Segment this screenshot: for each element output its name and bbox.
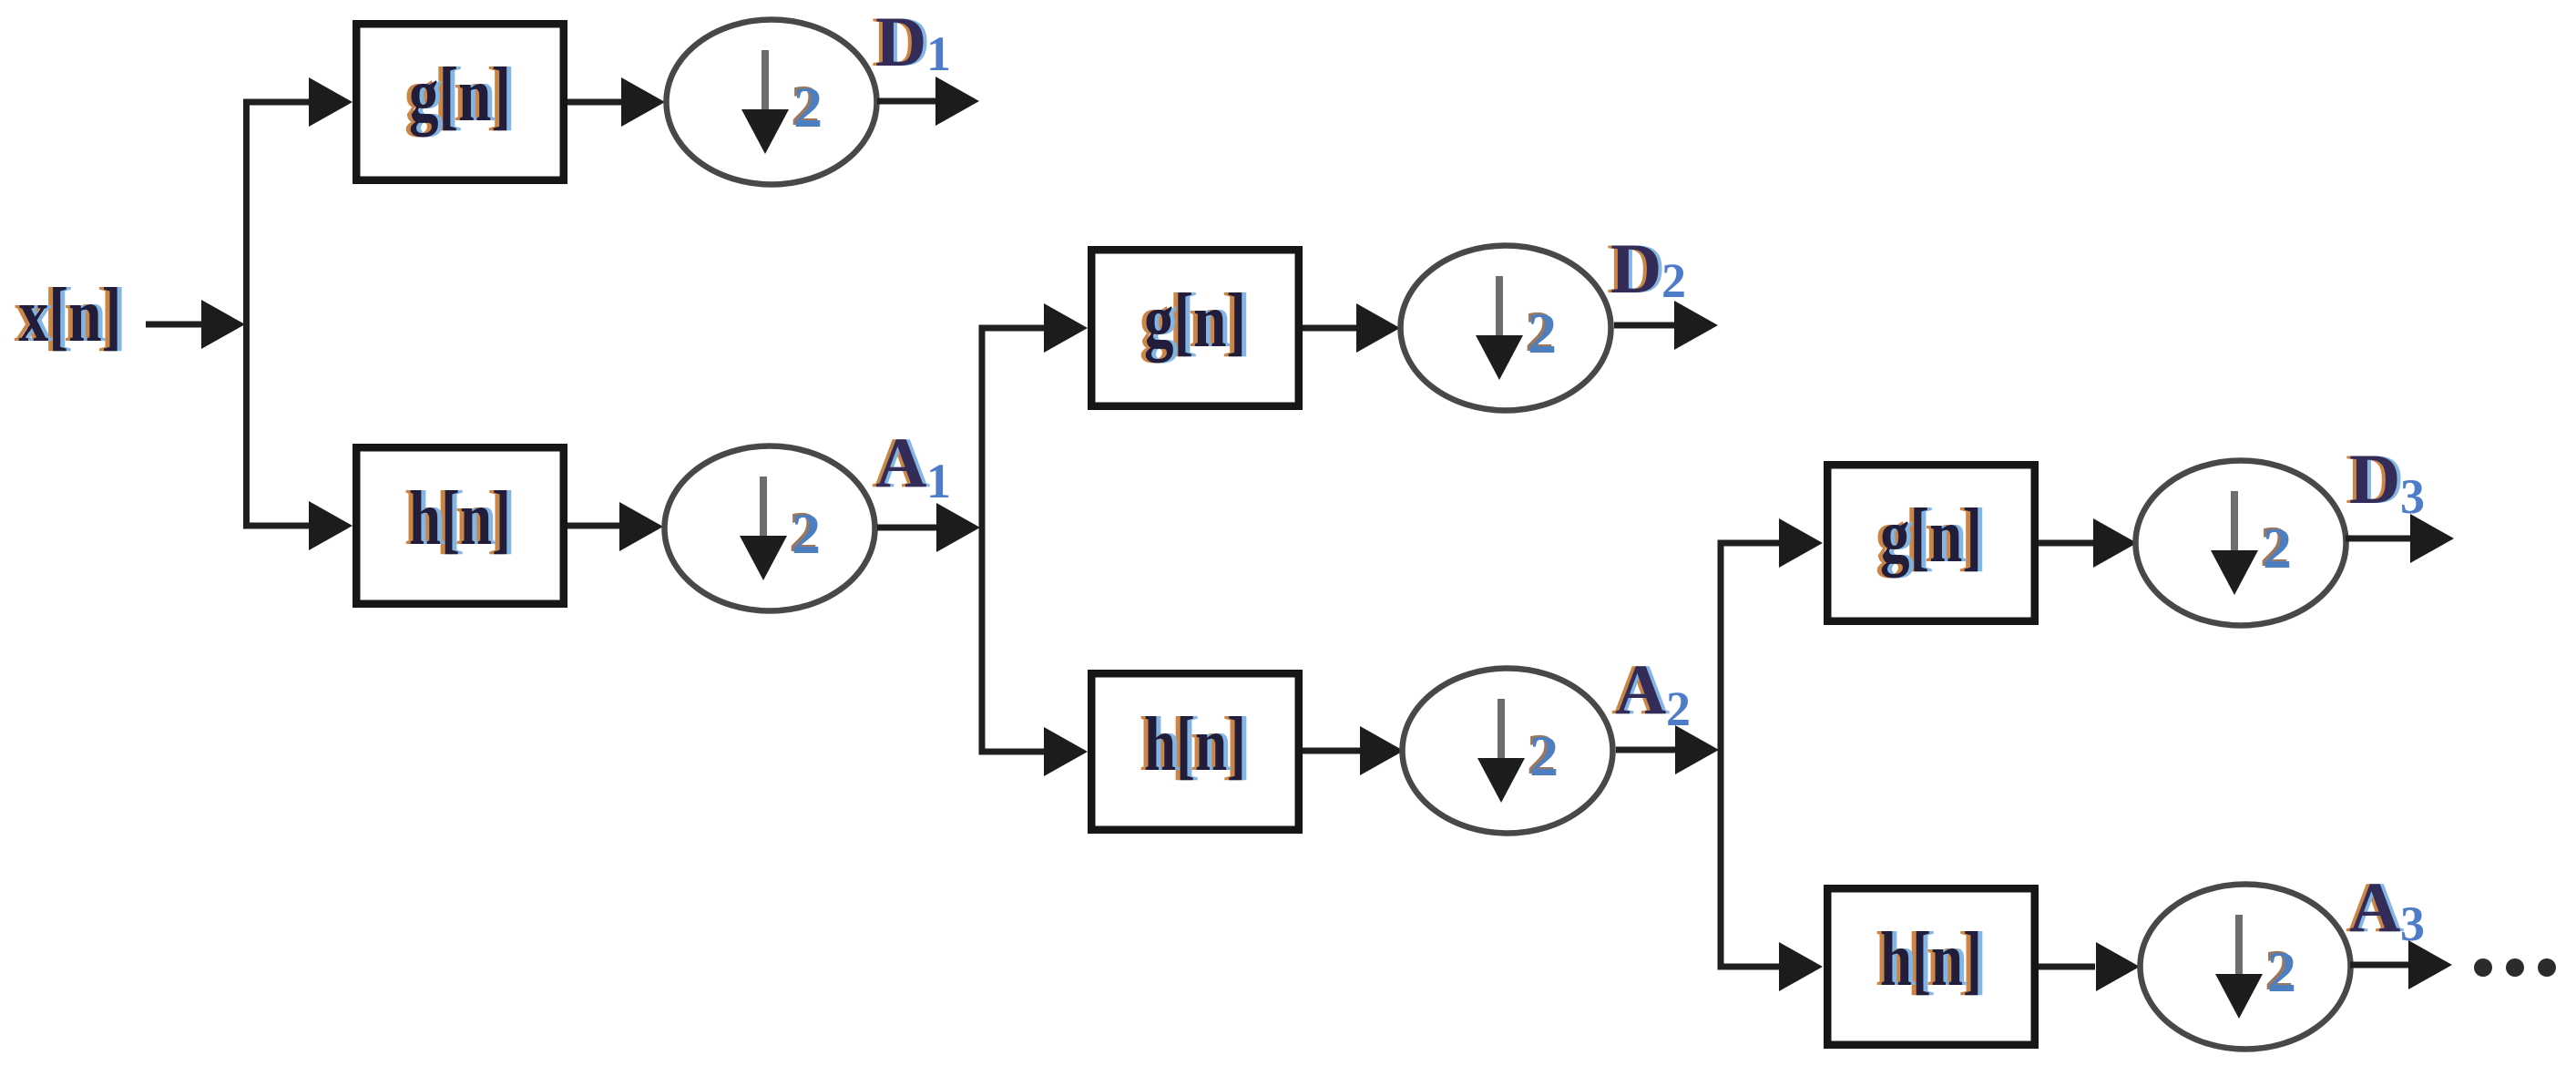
svg-text:2: 2 bbox=[2263, 516, 2292, 580]
continuation dots bbox=[2474, 958, 2556, 977]
svg-text:2: 2 bbox=[1529, 723, 1559, 788]
wire: x[n] to first split node bbox=[146, 300, 245, 349]
downsampler by 2 (A3 path) bbox=[2141, 885, 2351, 1050]
output label D3 bbox=[2346, 439, 2425, 524]
svg-text:g[n]: g[n] bbox=[1144, 278, 1246, 364]
output label A3 bbox=[2346, 867, 2425, 951]
wire: D1 output arrow bbox=[877, 77, 979, 126]
svg-text:x[n]: x[n] bbox=[19, 272, 122, 358]
svg-text:h[n]: h[n] bbox=[1880, 917, 1982, 1002]
wire: second branch vertical bbox=[979, 325, 986, 755]
output label D2 bbox=[1607, 229, 1686, 308]
downsampler by 2 (D2 path) bbox=[1401, 246, 1611, 411]
wire: g[n]3 to downsampler bbox=[2039, 518, 2137, 568]
filter box g[n] stage 1 bbox=[356, 24, 564, 180]
svg-text:2: 2 bbox=[1528, 301, 1557, 365]
downsampler by 2 (D3 path) bbox=[2136, 461, 2346, 626]
filter box h[n] stage 3 bbox=[1827, 888, 2035, 1045]
input label x[n] bbox=[15, 272, 127, 358]
filter box g[n] stage 2 bbox=[1091, 250, 1299, 406]
filter box h[n] stage 2 bbox=[1091, 673, 1299, 830]
downsampler by 2 (A1 path) bbox=[665, 446, 875, 611]
svg-text:1: 1 bbox=[926, 454, 951, 508]
svg-text:2: 2 bbox=[1661, 253, 1686, 308]
wire: D3 output arrow bbox=[2346, 514, 2454, 563]
wire: branch to g[n] stage3 bbox=[1721, 518, 1823, 568]
output label A2 bbox=[1611, 650, 1691, 736]
downsampler by 2 (D1 path) bbox=[667, 20, 877, 185]
svg-text:1: 1 bbox=[926, 26, 951, 81]
wire: h[n]2 to downsampler bbox=[1303, 726, 1404, 775]
wire: branch to g[n] stage1 bbox=[246, 77, 353, 127]
svg-text:A: A bbox=[1615, 650, 1666, 729]
svg-text:A: A bbox=[2349, 867, 2400, 947]
wire: A2 to third split node bbox=[1616, 725, 1719, 774]
filter box h[n] stage 1 bbox=[356, 447, 564, 604]
wire: branch to h[n] stage1 bbox=[246, 501, 353, 550]
svg-text:A: A bbox=[875, 423, 926, 502]
svg-text:g[n]: g[n] bbox=[409, 52, 511, 138]
wire: first branch vertical bbox=[243, 99, 250, 529]
svg-text:2: 2 bbox=[793, 75, 823, 139]
output label A1 bbox=[872, 423, 951, 508]
wire: branch to h[n] stage2 bbox=[982, 727, 1088, 776]
svg-text:g[n]: g[n] bbox=[1880, 493, 1982, 579]
svg-text:D: D bbox=[2349, 439, 2400, 518]
svg-text:2: 2 bbox=[2267, 939, 2296, 1004]
wire: branch to h[n] stage3 bbox=[1721, 942, 1823, 991]
wire: third branch vertical bbox=[1718, 540, 1724, 970]
wire: g[n]1 to downsampler bbox=[567, 77, 665, 127]
downsampler by 2 (A2 path) bbox=[1403, 669, 1613, 834]
svg-text:2: 2 bbox=[792, 501, 821, 566]
wire: h[n]3 to downsampler bbox=[2039, 942, 2140, 991]
output label D1 bbox=[872, 2, 951, 81]
wire: A3 output arrow bbox=[2350, 940, 2452, 989]
wire: A1 to second split node bbox=[877, 503, 980, 552]
wire: g[n]2 to downsampler bbox=[1303, 303, 1400, 353]
svg-text:h[n]: h[n] bbox=[409, 476, 511, 561]
wire: h[n]1 to downsampler bbox=[567, 502, 663, 551]
svg-text:D: D bbox=[1610, 229, 1661, 308]
svg-text:h[n]: h[n] bbox=[1144, 702, 1246, 787]
wire: D2 output arrow bbox=[1614, 301, 1718, 350]
wire: branch to g[n] stage2 bbox=[982, 303, 1088, 353]
svg-text:D: D bbox=[875, 2, 926, 81]
filter box g[n] stage 3 bbox=[1827, 465, 2035, 621]
